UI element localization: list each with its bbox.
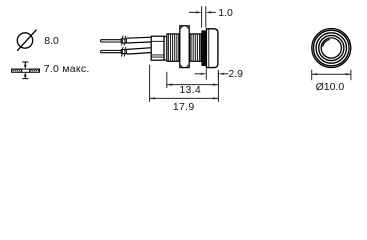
svg-text:2.9: 2.9 — [228, 68, 243, 80]
svg-text:13.4: 13.4 — [179, 84, 201, 96]
svg-text:1.0: 1.0 — [218, 7, 233, 19]
crimp sleeve 2 — [121, 50, 126, 54]
lens highlight arc — [323, 39, 330, 46]
svg-text:17.9: 17.9 — [173, 101, 195, 113]
lead pin 2 — [101, 50, 122, 52]
flange gasket — [201, 30, 206, 66]
housing inner lines — [152, 41, 164, 57]
svg-text:8.0: 8.0 — [44, 35, 59, 47]
rear housing — [151, 36, 164, 60]
lens inner circle — [321, 38, 341, 58]
dimension 2.9 — [195, 69, 229, 80]
front view bezel rings — [312, 29, 351, 68]
lead pin 1 — [101, 40, 122, 42]
lead wire 2 — [126, 48, 151, 55]
dimension 13.4 — [167, 72, 219, 88]
svg-text:Ø10.0: Ø10.0 — [316, 81, 345, 93]
svg-text:7.0 макс.: 7.0 макс. — [44, 63, 90, 75]
lead wire 1 — [126, 37, 151, 43]
break mark 1 — [121, 36, 126, 46]
panel hole diameter symbol — [17, 30, 36, 51]
dimension 1.0 — [189, 6, 216, 27]
threaded bushing left — [167, 34, 181, 61]
dimension 17.9 — [150, 65, 219, 102]
lens cap side view — [206, 29, 218, 68]
break mark 2 — [121, 47, 126, 57]
hex nut — [180, 26, 189, 68]
crimp sleeve 1 — [121, 39, 126, 43]
panel thickness symbol — [12, 62, 40, 79]
dimension ⌀10.0 — [312, 70, 351, 81]
threaded bushing right — [190, 34, 201, 61]
collar — [164, 36, 167, 60]
